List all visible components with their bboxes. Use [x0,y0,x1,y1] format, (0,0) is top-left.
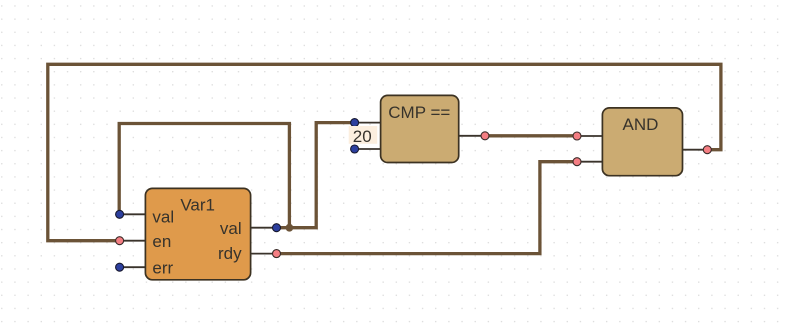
function block AND [602,108,682,176]
pin val (input) of Var1 [116,207,175,226]
svg-text:val: val [220,219,242,238]
pin input 1 of CMP [351,119,381,127]
wire: Var1 val output to CMP input 1 [277,123,355,228]
pin en (input) of Var1 [116,232,172,251]
svg-text:20: 20 [353,127,372,146]
pin rdy (output) of Var1 [218,244,281,263]
function block Var1 [145,188,250,279]
function block CMP == [381,95,459,162]
pin val (output) of Var1 [220,219,281,238]
pin input 2 of AND [573,158,602,166]
svg-text:val: val [152,207,174,226]
svg-text:AND: AND [623,115,659,134]
svg-text:en: en [152,232,171,251]
pin input 1 of AND [573,132,602,140]
wire: Var1 rdy output to AND input 2 [277,162,578,254]
junction on Var1 val output net [286,224,294,232]
wire: CMP output to AND input 1 [485,134,577,137]
pin err (input) of Var1 [116,259,174,278]
svg-text:Var1: Var1 [180,196,215,215]
pin output of AND [683,146,712,154]
literal value 20 on CMP input 2 [349,126,378,146]
wire: Var1 val output loop back to Var1 val input [119,124,289,228]
pin input 2 of CMP [351,145,381,153]
svg-text:rdy: rdy [218,244,242,263]
svg-text:CMP ==: CMP == [388,103,450,122]
pin output of CMP [459,132,489,140]
wire: AND output feedback to Var1 en input [48,64,721,240]
svg-text:err: err [152,259,173,278]
